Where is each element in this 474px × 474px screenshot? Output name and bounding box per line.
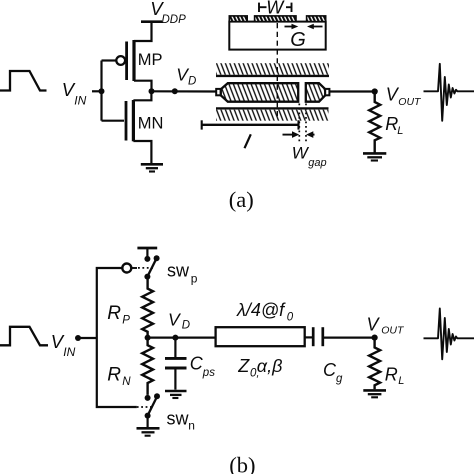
input pulse waveform (b) (0, 327, 48, 346)
transmission line box λ/4 (216, 327, 305, 346)
resistor R_L (a) (369, 92, 380, 153)
svg-text:L: L (398, 375, 404, 387)
wire MN drain lead (133, 91, 151, 100)
ground R_L (a) (363, 153, 386, 160)
transistor MP bubble (116, 56, 125, 65)
CPW top ground plane (plan) (216, 63, 329, 76)
transistor MP gate wire (102, 59, 117, 61)
capacitor C_ps (165, 338, 187, 390)
svg-text:V: V (367, 315, 381, 335)
arrow G left (285, 24, 299, 30)
ground C_ps (165, 391, 187, 398)
label C_ps (190, 354, 215, 380)
label R_L (a) (385, 114, 403, 137)
cross-section substrate (229, 22, 325, 50)
ground sw_n (137, 428, 160, 435)
resistor R_L (b) (369, 338, 380, 390)
transistor MP gate bar (125, 42, 128, 81)
dotted gap marker right (305, 104, 307, 145)
svg-text:0: 0 (287, 312, 294, 324)
power bar (b) (137, 247, 157, 250)
node V_OUT dot (b) (372, 335, 378, 341)
transistor MN gate wire (102, 120, 125, 122)
wire V_D (b) (148, 337, 216, 339)
svg-text:MP: MP (138, 51, 163, 69)
transistor MN channel bar (132, 100, 135, 141)
svg-text:L: L (397, 125, 403, 137)
arrow W_gap right (306, 131, 314, 138)
CPW bottom ground plane (plan) (216, 108, 329, 120)
wire sw_n to ground (147, 416, 149, 428)
wire V_IN to gate bus (a) (92, 90, 102, 92)
switch sw_p actuator circle (122, 264, 131, 273)
CPW left pad (216, 89, 221, 95)
label V_D (a) (176, 65, 196, 88)
label V_D (b) (168, 310, 190, 332)
label R_N (107, 365, 131, 389)
label Z_0 alpha beta (237, 356, 282, 380)
switch sw_n dotted linkage (137, 406, 152, 408)
switch sw_p (144, 255, 159, 279)
label l (245, 134, 251, 148)
wire MN source lead (133, 141, 151, 164)
svg-text:R: R (385, 365, 398, 385)
node V_IN terminal dot (b) (75, 335, 81, 341)
label sw_n (167, 409, 195, 433)
svg-text:sw: sw (167, 409, 190, 429)
svg-text:R: R (107, 365, 121, 386)
arrow W_gap left (283, 131, 300, 138)
svg-text:W: W (292, 144, 310, 163)
label W_gap (292, 144, 327, 170)
svg-text:ps: ps (202, 367, 215, 379)
cross-section center strip (W) (255, 16, 296, 22)
svg-text:MN: MN (138, 115, 164, 133)
svg-text:IN: IN (63, 345, 75, 359)
CPW center conductor (length l) (221, 83, 298, 102)
dimension bracket W (259, 3, 292, 12)
RF burst waveform (b) (424, 309, 474, 360)
wire box to C_g (305, 336, 313, 338)
svg-text:OUT: OUT (381, 325, 405, 337)
ground R_L (b) (363, 390, 386, 397)
label V_IN (b) (51, 331, 76, 359)
transistor MP channel bar (132, 40, 135, 81)
resistor R_P (142, 277, 153, 338)
label C_g (323, 360, 343, 385)
transistor MN gate bar (125, 101, 128, 141)
wire MP source lead (134, 22, 152, 41)
svg-text:G: G (290, 29, 306, 51)
switch sw_n (145, 393, 160, 418)
svg-text:W: W (266, 0, 285, 18)
cross-section right ground strip (307, 16, 326, 22)
label sw_p (167, 261, 198, 286)
node V_D dot left (b) (145, 335, 151, 341)
ground MN (141, 164, 163, 171)
svg-text:gap: gap (308, 157, 326, 169)
svg-text:g: g (336, 373, 343, 385)
svg-text:p: p (191, 272, 198, 286)
node V_D dot right (a) (172, 88, 178, 94)
resistor R_N (142, 338, 153, 395)
node V_OUT dot (a) (372, 88, 378, 94)
label V_OUT (b) (367, 315, 405, 337)
node V_IN junction dot (a) (99, 88, 105, 94)
cross-section left ground strip (229, 16, 247, 22)
dimension line l (202, 120, 299, 129)
dotted gap marker left (298, 104, 300, 145)
wire control bus (b) (97, 268, 137, 407)
wire gate bus (a) (100, 61, 102, 121)
capacitor C_g (313, 327, 323, 346)
input pulse waveform (a) (0, 71, 47, 91)
wire power stub (b) (146, 248, 148, 257)
svg-text:D: D (188, 76, 196, 88)
svg-text:Z: Z (237, 356, 250, 376)
label R_P (107, 303, 130, 327)
svg-text:sw: sw (167, 261, 190, 281)
svg-text:C: C (323, 360, 337, 380)
svg-text:N: N (122, 376, 131, 388)
svg-text:R: R (107, 303, 121, 324)
svg-text:IN: IN (74, 94, 86, 108)
label lambda/4 at f_0 (236, 300, 294, 324)
node C_ps junction dot (172, 335, 178, 341)
svg-text:α,β: α,β (257, 356, 283, 376)
label V_OUT (a) (386, 85, 422, 109)
RF burst waveform (a) (424, 64, 474, 121)
svg-text:(b): (b) (229, 453, 255, 474)
svg-text:DDP: DDP (162, 14, 187, 26)
label R_L (b) (385, 365, 405, 388)
wire V_D to CPW (a) (152, 90, 217, 92)
wire V_IN to bus (b) (78, 337, 97, 339)
wire CPW to V_OUT (a) (329, 90, 375, 92)
wire MP drain lead (134, 81, 152, 92)
svg-text:n: n (188, 419, 195, 433)
svg-text:λ/4@f: λ/4@f (236, 300, 286, 320)
power bar V_DDP (141, 20, 162, 23)
svg-text:P: P (122, 315, 130, 327)
dashed centerline (276, 23, 278, 118)
wire C_g to V_OUT (b) (323, 337, 375, 339)
arrow G right (307, 24, 323, 30)
svg-text:(a): (a) (229, 187, 254, 212)
label V_IN (a) (62, 79, 87, 108)
svg-text:D: D (182, 320, 190, 332)
label V_DDP (150, 0, 186, 26)
svg-text:OUT: OUT (398, 96, 422, 108)
node V_D dot left (a) (149, 88, 155, 94)
CPW right pad (325, 89, 329, 95)
svg-text:C: C (190, 354, 204, 374)
switch sw_p dotted linkage (132, 267, 155, 269)
CPW gap stub piece (306, 83, 326, 102)
